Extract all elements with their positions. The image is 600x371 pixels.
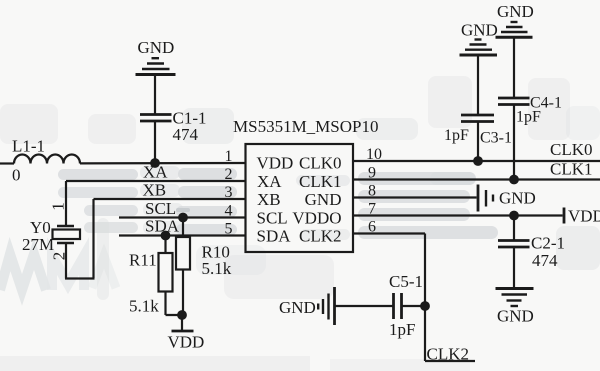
junction dot VDDO/C2-1 <box>509 211 519 221</box>
ground GND symbol (C5-1, sideways) <box>318 287 334 325</box>
junction dot SDA/R11 <box>161 231 171 241</box>
svg-text:GND: GND <box>497 2 534 21</box>
resistor R10 <box>176 218 190 316</box>
svg-text:GND: GND <box>138 38 175 57</box>
junction dot CLK0/C3-1 <box>473 156 483 166</box>
svg-text:C3-1: C3-1 <box>480 130 512 147</box>
junction dot VDD/C1-1 <box>150 158 160 168</box>
svg-text:GND: GND <box>497 307 534 326</box>
svg-text:474: 474 <box>532 251 558 270</box>
power VDD terminal (bottom) <box>172 315 194 331</box>
svg-text:SDA: SDA <box>145 217 180 236</box>
junction dot CLK2/C5-1 <box>420 301 430 311</box>
wire XA net <box>66 181 246 226</box>
svg-text:10: 10 <box>366 146 382 163</box>
wire CLK2 net (pin 6) <box>353 234 475 362</box>
svg-text:1pF: 1pF <box>516 109 541 126</box>
ground GND symbol (C3-1) <box>460 40 498 56</box>
wire SCL net <box>119 216 246 218</box>
ground GND symbol (pin 8, sideways) <box>478 185 493 212</box>
svg-text:3: 3 <box>225 184 233 201</box>
crystal Y0 <box>53 226 81 279</box>
svg-text:XA: XA <box>143 163 168 182</box>
wire SDA net <box>119 234 246 236</box>
svg-text:CLK1: CLK1 <box>299 172 342 191</box>
svg-text:1pF: 1pF <box>389 320 415 339</box>
inductor L1-1 <box>14 155 80 164</box>
junction dot SCL/R10 <box>178 213 188 223</box>
svg-text:C2-1: C2-1 <box>531 234 565 253</box>
svg-text:GND: GND <box>279 298 316 317</box>
svg-text:8: 8 <box>368 183 376 200</box>
svg-text:GND: GND <box>305 190 342 209</box>
svg-text:7: 7 <box>368 201 376 218</box>
svg-text:R11: R11 <box>129 251 157 270</box>
junction dot R11/R10/VDD <box>177 310 187 320</box>
svg-text:MS5351M_MSOP10: MS5351M_MSOP10 <box>233 117 379 136</box>
junction dot CLK1/C4-1 <box>509 175 519 185</box>
capacitor C5-1 <box>336 293 426 319</box>
svg-text:2: 2 <box>50 252 69 261</box>
ground GND symbol (C1-1) <box>136 58 176 74</box>
power VDD terminal (right) <box>563 208 566 224</box>
svg-text:CLK2: CLK2 <box>427 345 470 364</box>
capacitor C2-1 <box>498 216 530 289</box>
ground GND symbol (C2-1) <box>496 289 534 307</box>
capacitor C3-1 <box>461 56 494 162</box>
svg-text:VDDO: VDDO <box>292 209 341 228</box>
svg-text:CLK2: CLK2 <box>299 227 342 246</box>
svg-text:L1-1: L1-1 <box>12 137 45 156</box>
svg-text:SCL: SCL <box>257 209 288 228</box>
wire CLK1 net (pin 9) <box>353 178 600 180</box>
svg-text:SCL: SCL <box>145 199 176 218</box>
svg-text:474: 474 <box>173 125 199 144</box>
wire VDD net to pin 1 <box>80 162 246 165</box>
wire CLK0 net (pin 10) <box>353 160 600 162</box>
svg-text:VDD: VDD <box>257 154 294 173</box>
svg-text:6: 6 <box>368 219 376 236</box>
svg-text:XB: XB <box>257 190 281 209</box>
svg-text:5.1k: 5.1k <box>129 297 159 316</box>
svg-text:GND: GND <box>499 189 536 208</box>
capacitor C4-1 <box>498 38 530 180</box>
svg-text:4: 4 <box>225 203 233 220</box>
svg-text:C5-1: C5-1 <box>389 272 423 291</box>
wire GND net (pin 8) <box>353 196 477 198</box>
wire L1-1 input <box>0 162 14 164</box>
capacitor C1-1 <box>140 75 172 164</box>
svg-text:VDD: VDD <box>568 207 600 226</box>
svg-text:CLK0: CLK0 <box>299 154 342 173</box>
IC U1 MS5351M_MSOP10 box <box>246 144 354 252</box>
svg-text:SDA: SDA <box>257 227 292 246</box>
svg-text:XB: XB <box>143 181 167 200</box>
svg-text:1: 1 <box>49 202 68 211</box>
svg-text:27M: 27M <box>22 235 54 254</box>
svg-text:1pF: 1pF <box>444 127 469 144</box>
svg-text:VDD: VDD <box>168 333 205 352</box>
svg-text:2: 2 <box>225 166 233 183</box>
wire XB net <box>65 199 246 279</box>
svg-text:GND: GND <box>461 21 498 40</box>
svg-text:1: 1 <box>225 148 233 165</box>
resistor R11 <box>159 236 183 316</box>
svg-text:0: 0 <box>12 166 21 185</box>
ground GND symbol (C4-1) <box>496 22 533 37</box>
svg-text:5: 5 <box>225 221 233 238</box>
svg-text:5.1k: 5.1k <box>202 259 232 278</box>
svg-text:9: 9 <box>368 165 376 182</box>
svg-text:XA: XA <box>257 172 282 191</box>
svg-text:CLK1: CLK1 <box>550 160 593 179</box>
wire VDDO net (pin 7) <box>353 214 563 216</box>
svg-text:CLK0: CLK0 <box>550 140 593 159</box>
